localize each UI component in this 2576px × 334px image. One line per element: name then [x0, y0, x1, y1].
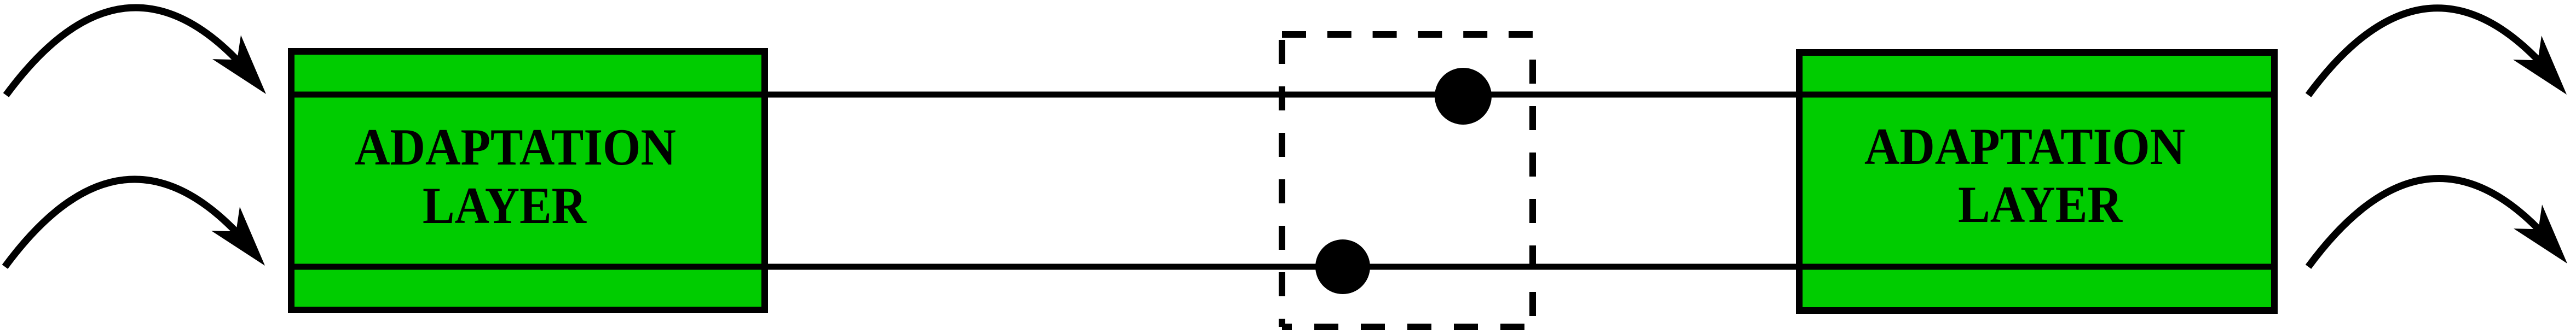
arrow left bottom head: [211, 207, 265, 266]
dashed box top edge: [1282, 31, 1533, 38]
arrow left bottom curve: [5, 179, 244, 267]
svg-text:ADAPTATION: ADAPTATION: [1864, 118, 2185, 175]
dashed box left edge: [1279, 40, 1285, 327]
adaptation layer box right: [1799, 52, 2274, 310]
node dot lower: [1315, 239, 1370, 294]
arrow right bottom curve: [2308, 178, 2546, 267]
dashed box bottom edge: [1282, 324, 1524, 330]
adaptation layer box left: [291, 51, 765, 310]
wire top: [288, 92, 2278, 98]
arrow right top curve: [2308, 8, 2548, 95]
dashed box right edge: [1529, 60, 1536, 327]
arrow left top curve: [6, 8, 245, 95]
svg-text:LAYER: LAYER: [423, 177, 587, 235]
wire bottom: [288, 264, 2278, 270]
arrow left top head: [212, 35, 266, 94]
arrow right bottom head: [2514, 204, 2567, 263]
node dot upper: [1435, 68, 1492, 125]
svg-text:ADAPTATION: ADAPTATION: [355, 118, 676, 176]
svg-text:LAYER: LAYER: [1958, 175, 2123, 233]
arrow right top head: [2513, 36, 2567, 95]
